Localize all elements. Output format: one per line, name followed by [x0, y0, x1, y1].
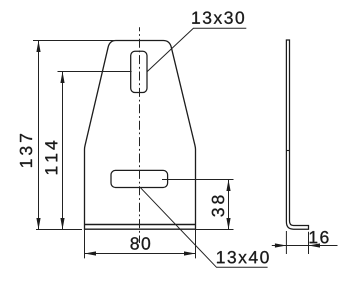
label 114 (rotated)	[45, 141, 57, 174]
arrow 114 bottom	[60, 218, 64, 230]
extension line: 38 top reference (slot 13x40 center)	[162, 179, 234, 181]
extension line: bottom reference for 137/114	[36, 229, 82, 231]
dimension line 16 (right segment)	[309, 245, 338, 247]
label 16	[310, 231, 329, 243]
arrow 114 top	[60, 72, 64, 84]
dimension line 16 (left segment)	[272, 245, 309, 247]
slot 13x40 (middle, horizontal)	[111, 170, 168, 187]
front view outline (bracket body)	[84, 41, 196, 230]
arrow 137 top	[36, 41, 40, 53]
side view edge tick (taper transition)	[286, 150, 289, 152]
bend tangent line (front view)	[85, 224, 196, 226]
leader line for slot 13x40	[140, 187, 268, 267]
arrow 16 right (outside, pointing left)	[309, 243, 321, 247]
arrow 16 left (outside, pointing right)	[275, 243, 287, 247]
label 137 (rotated)	[20, 134, 32, 167]
arrow 137 bottom	[36, 218, 40, 230]
side view L-profile outline	[286, 40, 308, 229]
label 13x40	[217, 251, 269, 263]
bottom edge (front view)	[84, 228, 196, 230]
extension line: top edge / 137 top reference	[33, 40, 117, 42]
label 13x30	[192, 11, 244, 23]
dimension line 80	[85, 253, 196, 255]
dimension line 38	[228, 180, 230, 230]
dimension line 114	[62, 72, 64, 230]
extension line: 16 left	[285, 231, 287, 254]
extension line: 80 right	[195, 229, 197, 258]
leader line for slot 13x30	[147, 28, 246, 72]
centerline (vertical dash-dot)	[139, 27, 141, 243]
arrow 80 left	[85, 251, 97, 255]
extension line: 16 right	[308, 232, 310, 254]
slot 13x30 (top, vertical)	[131, 51, 147, 92]
extension line: 114 top reference (to slot 13x30 center)	[58, 71, 132, 73]
extension line: 80 left	[84, 229, 86, 258]
dimension line 137	[38, 41, 40, 230]
arrow 38 top	[226, 180, 230, 192]
arrow 38 bottom	[226, 218, 230, 230]
arrow 80 right	[184, 251, 196, 255]
label 38 (rotated)	[212, 196, 224, 217]
extension line: 38 bottom reference (bottom edge extended)	[196, 229, 234, 231]
label 80	[131, 237, 151, 249]
